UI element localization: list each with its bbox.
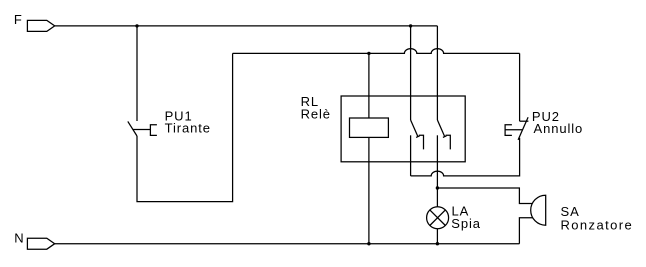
contact 2 fixed hook (446, 135, 451, 149)
node junction F/contact1 (409, 24, 412, 27)
contact 1 blade (411, 120, 418, 137)
relay RL coil (350, 118, 389, 137)
pushbutton PU2 blade (518, 117, 528, 140)
svg-text:Annullo: Annullo (534, 121, 584, 136)
svg-text:Relè: Relè (301, 107, 331, 122)
wire contact1 to PU2 with hop (411, 138, 520, 176)
node junction lamp/N (436, 242, 439, 245)
wire lamp bottom lead (436, 229, 438, 244)
lamp LA cross (430, 210, 446, 226)
wire buzzer bottom lead (519, 218, 532, 244)
wire bus 2 with hops (233, 49, 520, 54)
pushbutton PU2 rod (505, 129, 522, 131)
node junction coil/N (367, 242, 370, 245)
wire F line (55, 25, 438, 27)
svg-text:Spia: Spia (451, 216, 481, 231)
wire coil bottom lead (368, 137, 370, 243)
wire PU2 top lead (519, 53, 521, 121)
relay RL enclosure box (341, 96, 465, 162)
contact 2 blade (437, 120, 444, 137)
wire to buzzer (437, 188, 532, 204)
contact 1 blade tick (416, 136, 420, 138)
pushbutton PU1 cap (150, 125, 157, 136)
svg-text:F: F (14, 12, 23, 27)
node junction F/PU1 (135, 24, 138, 27)
lamp LA circle (427, 207, 449, 229)
svg-text:N: N (14, 230, 24, 245)
node junction lamp/buzzer (436, 186, 439, 189)
terminal N tag (27, 238, 54, 249)
wire lamp top lead (436, 188, 438, 207)
wire contact2 bottom lead (436, 135, 438, 188)
svg-text:Tirante: Tirante (165, 121, 211, 136)
buzzer SA body (531, 195, 546, 225)
pushbutton PU2 fixed bar (520, 120, 529, 122)
svg-text:Ronzatore: Ronzatore (561, 217, 634, 232)
node junction coil (367, 52, 370, 55)
pushbutton PU1 blade (128, 121, 137, 136)
terminal F tag (27, 20, 54, 31)
wire coil top lead (368, 53, 370, 118)
contact 1 fixed hook (419, 135, 424, 149)
wire PU1 bottom to riser (137, 53, 233, 201)
wire contact1 bottom lead (410, 135, 412, 176)
wire contact1 top lead (410, 26, 412, 120)
pushbutton PU1 rod (133, 129, 151, 131)
wire PU1 top lead (136, 26, 138, 121)
wire N line (55, 243, 520, 245)
contact 2 blade tick (443, 136, 447, 138)
pushbutton PU2 cap (505, 125, 512, 136)
wire contact2 top lead (436, 26, 438, 120)
